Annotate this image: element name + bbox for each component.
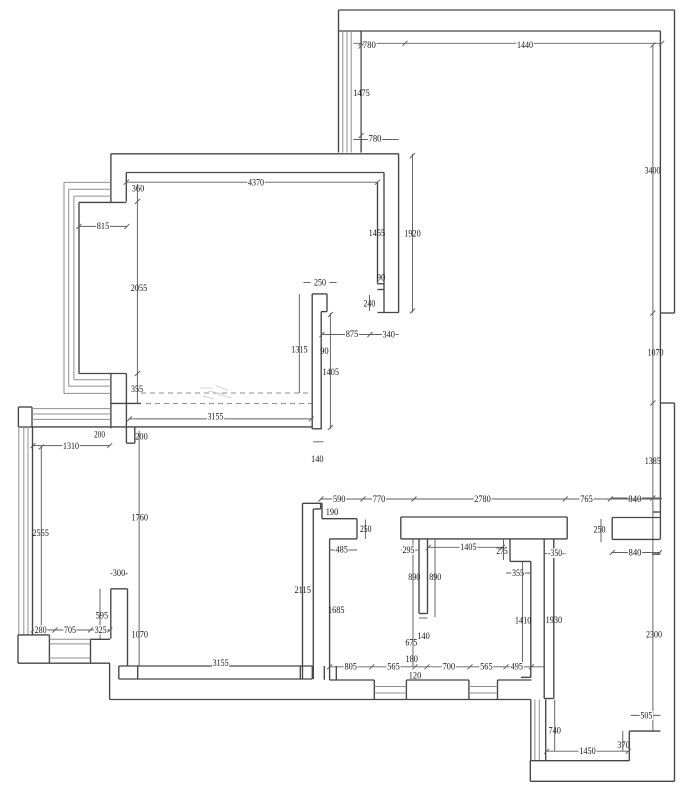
dim dash left of 250 xyxy=(304,282,311,284)
wall living-bottom cap1 xyxy=(118,666,120,679)
tick x653 y45 xyxy=(650,43,655,48)
dimension extension x554 xyxy=(554,700,556,752)
svg-text:700: 700 xyxy=(443,661,456,672)
bay living line1 xyxy=(18,427,20,635)
window strip line2 xyxy=(32,413,111,415)
svg-text:200: 200 xyxy=(135,431,148,442)
dimension line 875-340 xyxy=(321,334,398,336)
dim label 765 xyxy=(580,494,594,505)
window bedroom west line3 xyxy=(538,700,540,761)
dim label 1385 xyxy=(645,456,661,467)
dimension line 780 lower xyxy=(353,139,398,141)
svg-text:2300: 2300 xyxy=(646,629,662,640)
wall upper-left inner right xyxy=(377,182,379,284)
wall top-right room inner right edge xyxy=(659,31,661,539)
wall bath2 step left xyxy=(509,539,511,562)
svg-text:805: 805 xyxy=(344,661,357,672)
wall upper-left inner left lower xyxy=(125,374,127,444)
svg-text:250: 250 xyxy=(314,277,326,288)
dim label 840 lower xyxy=(628,547,642,558)
svg-text:3155: 3155 xyxy=(213,658,229,669)
dimension line 350 xyxy=(544,553,566,555)
wall band right edge xyxy=(553,539,555,698)
window kitchen2 left xyxy=(468,680,470,700)
dim label 1475 xyxy=(353,88,370,99)
dim label 140 bath xyxy=(417,631,430,642)
dimension tick 275 xyxy=(503,539,505,560)
wall top-right room outer right edge upper xyxy=(674,10,676,313)
svg-text:3400: 3400 xyxy=(645,165,661,176)
wall cap right y554 xyxy=(652,553,660,555)
svg-text:505: 505 xyxy=(640,710,652,721)
wall living-bottom bottom edge xyxy=(119,678,312,680)
dimension line main chain y499 xyxy=(320,498,662,500)
svg-text:140: 140 xyxy=(417,631,430,642)
svg-text:340: 340 xyxy=(382,330,395,341)
wall slab top edge xyxy=(401,516,567,518)
dim label 1070 living xyxy=(132,629,149,640)
svg-text:780: 780 xyxy=(363,40,376,51)
wall pier kitchen b xyxy=(335,666,337,680)
svg-text:590: 590 xyxy=(333,494,346,505)
dashed removed-wall line lower xyxy=(146,403,312,405)
wall corridor notch bottom xyxy=(313,508,320,510)
tick 2555 T xyxy=(39,445,44,450)
svg-text:1760: 1760 xyxy=(132,513,149,524)
window kitchen2 line2 xyxy=(469,692,498,694)
dim label 355 bath xyxy=(511,568,524,579)
wall pier bottom edge y403 xyxy=(111,402,141,404)
window glazing line3 top-right xyxy=(350,31,352,153)
wall kitchen left inner xyxy=(329,539,331,680)
svg-text:90: 90 xyxy=(320,346,329,357)
wall central bottom cap xyxy=(312,428,322,430)
dim label 300 xyxy=(110,568,128,579)
svg-text:815: 815 xyxy=(97,221,110,232)
tick x361 y135 xyxy=(359,133,364,138)
dim label 370 xyxy=(617,740,630,751)
svg-text:190: 190 xyxy=(326,507,339,518)
dimension tick line 240 xyxy=(369,295,371,311)
tick 4370 L xyxy=(124,180,129,185)
dimension line 485 xyxy=(329,549,357,551)
dimension extension x100 xyxy=(99,589,101,639)
svg-text:355: 355 xyxy=(131,384,143,395)
dimension extension x139 xyxy=(138,431,140,666)
window strip line1 xyxy=(32,408,111,410)
dim label 140 upper xyxy=(311,454,324,465)
svg-text:-350-: -350- xyxy=(548,548,565,559)
wall kitchen step right1 xyxy=(321,503,323,518)
bay ring2 vertical xyxy=(68,189,70,386)
wall corridor left edge xyxy=(302,503,304,679)
tick y499 e xyxy=(608,497,613,502)
svg-text:90: 90 xyxy=(377,272,386,283)
door threshold dash xyxy=(419,617,428,619)
dim label 1310 xyxy=(62,441,79,452)
tick y499 a xyxy=(318,497,323,502)
dim label 350 xyxy=(547,548,565,559)
dim label 1405 central xyxy=(323,367,340,378)
wall cap right wall step y403 xyxy=(660,402,674,404)
svg-text:890: 890 xyxy=(429,572,441,583)
svg-text:705: 705 xyxy=(64,625,76,636)
tick 815 R xyxy=(125,224,130,229)
wall central notch right upper xyxy=(326,294,328,312)
tick x137 y201 xyxy=(135,199,140,204)
tick 875 L xyxy=(320,332,325,337)
dim label 485 xyxy=(335,545,349,556)
dim label 495 xyxy=(510,661,523,672)
wall notch right edge xyxy=(134,427,136,443)
wall divider cap xyxy=(419,613,428,615)
dim label 295 xyxy=(402,545,415,556)
bay ring2 bottom xyxy=(69,385,111,387)
svg-text:1405: 1405 xyxy=(460,542,477,553)
tick y499 d xyxy=(563,497,568,502)
dim label 890b xyxy=(429,572,441,583)
dim label 200 a xyxy=(94,429,105,440)
wall divider left xyxy=(418,539,420,614)
dim label 700 xyxy=(442,661,456,672)
window sill line1 xyxy=(49,638,90,640)
tick 780-1440 xyxy=(403,41,408,46)
wall outer right edge lower xyxy=(674,403,676,781)
svg-text:3155: 3155 xyxy=(208,411,224,422)
wall corridor right edge xyxy=(312,509,314,679)
wall corner block left xyxy=(17,635,19,663)
dim label 675 xyxy=(405,638,417,649)
svg-text:1070: 1070 xyxy=(648,347,664,358)
dimension tick 250 kitchen xyxy=(364,520,366,540)
svg-text:240: 240 xyxy=(363,298,375,309)
svg-text:765: 765 xyxy=(580,494,593,505)
dim label 250 entry xyxy=(594,524,606,535)
svg-text:1930: 1930 xyxy=(546,615,563,626)
bay ring1 vertical xyxy=(63,182,65,393)
window glazing line1 top-right xyxy=(342,31,344,153)
svg-text:1455: 1455 xyxy=(369,228,386,239)
wall corridor top cap xyxy=(303,502,323,504)
wall slabB top edge xyxy=(612,517,660,519)
dim label 1440 xyxy=(516,40,533,51)
tick 280-705 xyxy=(53,628,58,633)
wall top-right room inner top edge xyxy=(339,30,661,32)
dim label 1920 xyxy=(404,228,421,239)
svg-text:295: 295 xyxy=(403,545,415,556)
tick 875-340 xyxy=(368,332,373,337)
wall slab right edge xyxy=(566,517,568,539)
dim label 325 xyxy=(94,625,107,636)
tick y499 b xyxy=(361,497,366,502)
dim label 4370 xyxy=(247,178,264,189)
tick kb3 xyxy=(413,664,418,669)
dimension line 295 xyxy=(401,549,418,551)
dim label 90 central xyxy=(320,346,329,357)
wall living-bottom cap3 xyxy=(299,666,301,679)
wall slab left edge xyxy=(400,517,402,539)
dim label 770 xyxy=(372,494,386,505)
wall cap right y512 xyxy=(653,511,661,513)
tick x653 y498 xyxy=(650,496,655,501)
dim label 2115 xyxy=(294,585,311,596)
tick 1450 L xyxy=(544,749,549,754)
svg-text:140: 140 xyxy=(311,454,324,465)
dashed removed-wall line upper xyxy=(141,392,312,394)
window kitchen1 right xyxy=(405,680,407,700)
svg-text:200: 200 xyxy=(94,429,105,440)
svg-text:565: 565 xyxy=(387,661,400,672)
wall kitchen-bottom seg3 xyxy=(498,679,532,681)
wall band left edge xyxy=(543,539,545,699)
tick 1405b R xyxy=(500,545,505,550)
wall upper-left outer left upper xyxy=(110,154,112,203)
wall living-bottom cap2 xyxy=(137,666,139,679)
wall pier square bottom xyxy=(18,426,32,428)
window kitchen2 right xyxy=(497,680,499,700)
wall bottom inner edge left xyxy=(18,662,110,664)
dim label 815 xyxy=(96,221,110,232)
svg-text:565: 565 xyxy=(480,661,493,672)
svg-text:1385: 1385 xyxy=(645,456,661,467)
dimension line 280-705-325 xyxy=(33,629,111,631)
wall corner block top xyxy=(18,634,49,636)
dimension extension x413 xyxy=(412,539,414,667)
wall pier r-of-window top xyxy=(91,638,111,640)
wall bedroom step top xyxy=(629,730,660,732)
wall upper-left inner top xyxy=(126,172,384,174)
wall bedroom-bottom outer xyxy=(530,780,674,782)
wall kitchen step top xyxy=(322,518,357,520)
tick kb6 xyxy=(504,664,509,669)
dimension line 3155 upper xyxy=(129,418,313,420)
tick 280 L xyxy=(31,628,36,633)
dimension extension x330 xyxy=(329,313,331,429)
dim label 2055 xyxy=(131,283,148,294)
wall upper-left outer top xyxy=(111,153,399,155)
tick kb4 xyxy=(425,664,430,669)
tick kb7 xyxy=(529,664,534,669)
dim label 565a xyxy=(387,661,401,672)
dim label 780 lower xyxy=(368,133,382,144)
wall cap right wall step y313 xyxy=(660,312,674,314)
wall upper-left outer left lower xyxy=(110,374,112,429)
bay ring1 top xyxy=(64,181,111,183)
bay living line2 xyxy=(23,427,25,635)
wall kitchen-bottom seg2 xyxy=(406,679,469,681)
bay ring4 vertical frame xyxy=(78,202,80,373)
window sill line2 xyxy=(49,643,90,645)
wall bedroom-bottom inner xyxy=(530,760,629,762)
wall kitchen-bottom seg1 xyxy=(330,679,375,681)
tick x361 y46 xyxy=(359,44,364,49)
wall left jamb top-right room xyxy=(338,10,340,153)
wall upper-left inner left upper xyxy=(125,173,127,202)
bay ring1 bottom xyxy=(64,392,111,394)
dim label 90 step xyxy=(377,272,386,283)
wall band bottom cap xyxy=(544,698,554,700)
svg-text:890: 890 xyxy=(408,572,420,583)
tick 1920 T xyxy=(410,153,415,158)
svg-text:1070: 1070 xyxy=(132,629,149,640)
wall step90 top xyxy=(378,283,385,285)
wall central left edge xyxy=(311,294,313,429)
svg-text:840: 840 xyxy=(629,547,642,558)
dim label 2300 xyxy=(646,629,662,640)
svg-text:-300-: -300- xyxy=(110,568,128,579)
svg-text:770: 770 xyxy=(373,494,386,505)
dimension line kitchen chain xyxy=(330,666,545,668)
window kitchen2 line1 xyxy=(469,686,498,688)
dim label 565b xyxy=(479,661,493,672)
tick 2555 B xyxy=(39,626,44,631)
dim label 890a xyxy=(408,572,420,583)
wall pier kitchen a xyxy=(323,666,325,680)
svg-text:1450: 1450 xyxy=(579,746,596,757)
dim label 1455 xyxy=(369,228,386,239)
tick 4370 R xyxy=(375,180,380,185)
svg-text:2780: 2780 xyxy=(474,494,491,505)
dim label 250 kitchen xyxy=(360,524,372,535)
svg-text:595: 595 xyxy=(96,610,109,621)
dim label 595 xyxy=(96,610,109,621)
wall bath2 bottom cap xyxy=(521,676,531,678)
svg-text:275: 275 xyxy=(496,546,508,557)
dimension extension x137 xyxy=(136,184,138,403)
dimension line 840 upper xyxy=(610,497,661,499)
wall kitchen step right2 xyxy=(356,519,358,539)
dim label 120 xyxy=(409,671,422,682)
dim label 3155 upper xyxy=(207,411,224,422)
faint watermark xyxy=(200,386,231,399)
dimension extension x435 xyxy=(434,539,436,617)
dimension tick 250 entry xyxy=(600,519,602,542)
tick 840l R xyxy=(657,550,662,555)
tick 1405 B xyxy=(328,425,333,430)
tick 780 left xyxy=(359,41,364,46)
svg-text:875: 875 xyxy=(346,329,359,340)
wall block300 right xyxy=(127,589,129,666)
wall pier r-of-window left xyxy=(90,639,92,663)
window glazing line2 top-right xyxy=(346,31,348,153)
dim label 740 xyxy=(548,725,561,736)
wall central top cap xyxy=(312,293,327,295)
bay ring3 top xyxy=(74,195,111,197)
bay ring4 bottom frame xyxy=(79,373,126,375)
dim label 275 xyxy=(496,546,508,557)
dim label 250 central xyxy=(314,277,326,288)
dimension line 780-1440 xyxy=(353,42,661,44)
svg-text:2555: 2555 xyxy=(32,528,49,539)
svg-text:1440: 1440 xyxy=(517,40,533,51)
dim label 1930 xyxy=(546,615,563,626)
dimension extension x522 xyxy=(522,562,524,670)
svg-text:1405: 1405 xyxy=(323,367,340,378)
svg-text:1685: 1685 xyxy=(328,605,345,616)
dimension line 355 bath xyxy=(506,572,530,574)
dimension extension x412 xyxy=(412,154,414,313)
dimension line 1450 xyxy=(546,750,630,752)
dimension extension x299 xyxy=(298,294,300,393)
wall bedroom step right xyxy=(628,731,630,761)
tick 1310 L xyxy=(31,443,36,448)
svg-text:2055: 2055 xyxy=(131,283,148,294)
svg-text:280: 280 xyxy=(35,625,47,636)
dimension line 1405 bath xyxy=(428,546,504,548)
tick 1310 R xyxy=(107,443,112,448)
tick kb2 xyxy=(369,664,374,669)
svg-text:1920: 1920 xyxy=(404,228,421,239)
dimension line 1310 xyxy=(32,445,111,447)
wall central right edge xyxy=(320,312,322,429)
svg-text:1410: 1410 xyxy=(515,615,532,626)
dim label 280 xyxy=(34,625,47,636)
dim label 2555 xyxy=(32,528,49,539)
dim label 190 xyxy=(326,507,339,518)
tick 3155u R xyxy=(309,416,314,421)
wall block300 top cap xyxy=(111,588,128,590)
wall living-bottom top edge xyxy=(119,665,312,667)
dimension line 840 lower xyxy=(611,552,660,554)
dim label 240 xyxy=(363,298,375,309)
dim label 355 left xyxy=(131,384,143,395)
window bedroom west line1 xyxy=(530,700,532,761)
dim label 360 xyxy=(132,183,145,194)
floor opening line y427 xyxy=(32,426,312,428)
dim label 2780 xyxy=(474,494,492,505)
dim label 780 top xyxy=(362,40,376,51)
dimension line 815 xyxy=(79,225,127,227)
dimension extension x41 xyxy=(40,446,42,630)
window kitchen1 left xyxy=(373,680,375,700)
svg-text:250: 250 xyxy=(360,524,372,535)
wall divider right xyxy=(427,539,429,614)
svg-text:180: 180 xyxy=(405,654,418,665)
dim label 590 xyxy=(332,494,346,505)
dim label 1760 xyxy=(132,513,149,524)
dim label 1450 xyxy=(579,746,597,757)
tick 705-325 xyxy=(88,628,93,633)
window strip line3 xyxy=(32,418,111,420)
tick 325 R xyxy=(107,628,112,633)
wall step90 bottom xyxy=(378,289,385,291)
svg-text:1315: 1315 xyxy=(291,344,308,355)
dimension line 4370 xyxy=(126,181,377,183)
dim label 840 upper xyxy=(628,494,642,505)
window kitchen1 line1 xyxy=(374,686,406,688)
wall notch bottom xyxy=(126,442,134,444)
svg-text:495: 495 xyxy=(511,661,523,672)
svg-text:1475: 1475 xyxy=(353,88,370,99)
wall bath2 step bottom xyxy=(510,560,531,562)
dim label 180 xyxy=(405,654,418,665)
tick y499 c xyxy=(412,497,417,502)
dim label 3155 living xyxy=(212,658,229,669)
wall slabB left edge xyxy=(611,518,613,540)
wall bedroom-bottom left xyxy=(529,761,531,782)
svg-text:325: 325 xyxy=(95,625,107,636)
wall living-bottom cap4 xyxy=(311,666,313,679)
svg-text:485: 485 xyxy=(335,545,348,556)
wall bath2 right edge xyxy=(530,561,532,677)
svg-text:360: 360 xyxy=(132,183,145,194)
dim label 1685 xyxy=(328,605,345,616)
tick 1920 B xyxy=(410,309,415,314)
wall slab bottom edge xyxy=(401,538,567,540)
dim label 340 xyxy=(382,330,396,341)
dimension tick 140 upper xyxy=(313,441,323,443)
tick x653 y313 xyxy=(650,311,655,316)
